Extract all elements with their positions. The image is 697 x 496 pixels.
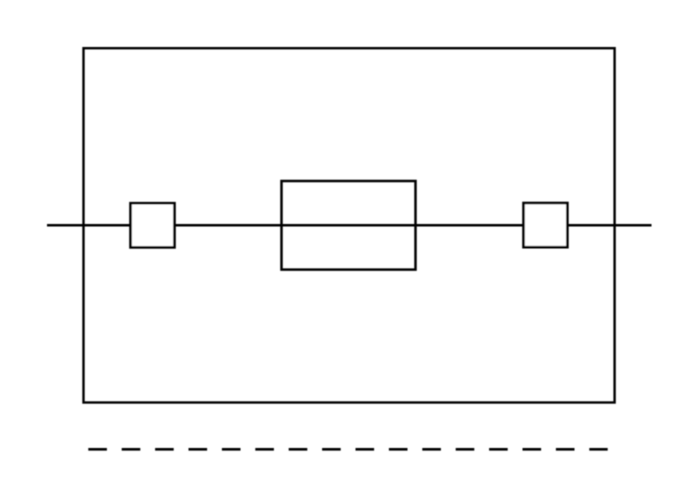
clamp contact left (131, 203, 175, 247)
wire left lead (47, 224, 131, 227)
wire middle segment (175, 224, 524, 227)
terminal block body outline (84, 48, 615, 402)
clamp contact right (524, 203, 568, 247)
fuse holder F1 (282, 181, 416, 270)
wire right lead (567, 224, 651, 227)
isolation dashed line (88, 448, 607, 451)
